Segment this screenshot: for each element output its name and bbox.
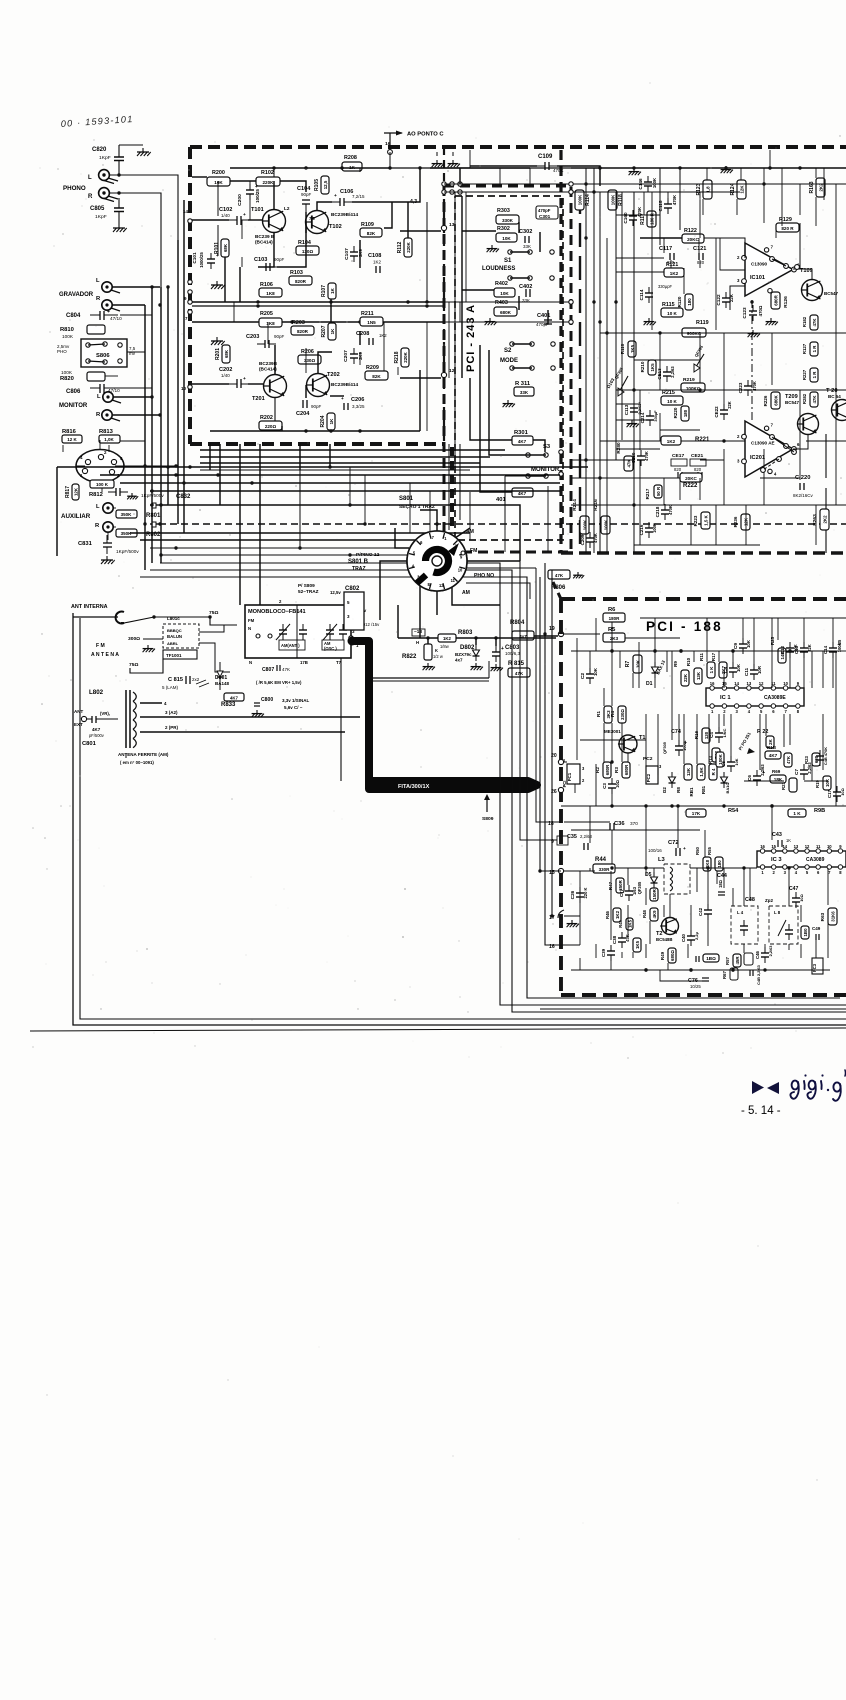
svg-text:D2: D2 xyxy=(662,787,667,793)
svg-text:4K7: 4K7 xyxy=(230,696,238,701)
wire rows between boxes xyxy=(200,469,470,471)
svg-text:L3: L3 xyxy=(658,857,666,863)
svg-text:R801: R801 xyxy=(146,513,161,519)
svg-text:R3: R3 xyxy=(614,767,619,773)
junction circles cluster xyxy=(442,182,446,186)
wire preamp mid rail2 xyxy=(192,321,444,323)
svg-text:AUXILIAR: AUXILIAR xyxy=(61,513,91,520)
svg-text:C40: C40 xyxy=(681,933,686,941)
svg-text:150R: 150R xyxy=(652,888,657,899)
svg-text:(OSC ): (OSC ) xyxy=(324,646,337,651)
svg-text:22K: 22K xyxy=(683,673,688,682)
svg-text:CA3089E: CA3089E xyxy=(764,695,786,701)
svg-text:2,2/63: 2,2/63 xyxy=(670,366,675,378)
svg-text:13: 13 xyxy=(794,844,799,849)
svg-text:1KpF/500v: 1KpF/500v xyxy=(116,549,139,554)
svg-text:C4: C4 xyxy=(709,732,714,738)
capacitor C803 xyxy=(492,651,500,653)
capacitor C4B vertical xyxy=(816,755,824,757)
svg-text:820: 820 xyxy=(697,260,705,265)
svg-text:10K: 10K xyxy=(593,667,598,676)
svg-text:QF305: QF305 xyxy=(637,881,642,894)
svg-text:C13090 AE: C13090 AE xyxy=(751,441,775,446)
thick signal wire xyxy=(352,641,537,789)
svg-text:330K: 330K xyxy=(502,218,514,223)
capacitor C122 vertical xyxy=(722,297,730,299)
svg-text:C206: C206 xyxy=(351,397,364,403)
svg-text:18Ω: 18Ω xyxy=(718,879,723,888)
capacitor C114 vertical xyxy=(645,292,653,294)
svg-text:3,3v 1/SINAL: 3,3v 1/SINAL xyxy=(282,698,310,703)
svg-text:350K: 350K xyxy=(121,512,133,517)
svg-text:R21: R21 xyxy=(781,781,786,789)
capacitor C107 vertical xyxy=(350,251,358,253)
resistor R18 xyxy=(765,751,781,759)
svg-text:C301: C301 xyxy=(539,214,551,219)
svg-text:+: + xyxy=(255,184,258,190)
svg-text:52−TRAZ: 52−TRAZ xyxy=(298,589,319,594)
svg-text:1KpF: 1KpF xyxy=(95,214,107,220)
svg-text:BZX79c: BZX79c xyxy=(455,652,472,657)
svg-text:100K: 100K xyxy=(652,523,657,533)
svg-text:5 (LAM): 5 (LAM) xyxy=(162,685,179,690)
resistor R216 vertical xyxy=(601,516,610,534)
svg-text:R48: R48 xyxy=(642,909,647,917)
svg-text:BBBQC: BBBQC xyxy=(167,628,182,633)
wire pci188 row 868 xyxy=(571,870,595,872)
resistor R118 vertical xyxy=(608,190,617,210)
capacitor CE22 vertical xyxy=(720,409,728,411)
ground tone mid xyxy=(631,420,633,424)
svg-text:R57: R57 xyxy=(725,956,730,964)
svg-text:82K: 82K xyxy=(367,231,376,236)
svg-text:4K7: 4K7 xyxy=(518,439,527,444)
resistor R40 vertical xyxy=(633,938,641,952)
wire preamp top rail xyxy=(230,167,390,169)
svg-text:470pF: 470pF xyxy=(536,322,549,327)
photocoupler PC1 xyxy=(567,764,580,784)
svg-text:470Ω: 470Ω xyxy=(758,305,763,316)
svg-text:PHONO: PHONO xyxy=(63,185,86,192)
svg-text:220Ω: 220Ω xyxy=(265,424,277,429)
wire long h 540 xyxy=(140,539,460,541)
svg-text:+: + xyxy=(341,396,344,401)
resistor R1 vertical xyxy=(604,706,612,723)
svg-text:IC 3: IC 3 xyxy=(771,857,782,863)
svg-text:1K2: 1K2 xyxy=(615,910,620,919)
pci188 pin 19 wire xyxy=(564,633,600,635)
pin 13 xyxy=(441,225,446,230)
svg-text:R204: R204 xyxy=(320,415,326,427)
svg-text:S809: S809 xyxy=(482,816,494,822)
svg-text:R203: R203 xyxy=(292,320,305,326)
svg-text:7,2/15: 7,2/15 xyxy=(352,194,365,199)
wire aux gnd stub xyxy=(107,532,109,540)
svg-text:1K5: 1K5 xyxy=(650,363,655,372)
wire pci188 bottom rows xyxy=(571,969,830,971)
wire preamp rails xyxy=(192,176,207,178)
svg-text:pF/500v: pF/500v xyxy=(89,733,105,738)
antenna hook xyxy=(116,612,124,624)
svg-text:R 311: R 311 xyxy=(515,381,531,387)
svg-text:R54: R54 xyxy=(728,808,739,814)
capacitor C802 box xyxy=(344,592,364,630)
svg-text:75Ω: 75Ω xyxy=(209,610,218,616)
svg-text:TF1001: TF1001 xyxy=(166,653,182,658)
wire long h 475 xyxy=(100,474,560,476)
svg-text:17B: 17B xyxy=(300,660,308,665)
junction dots bus2 xyxy=(166,465,169,468)
svg-text:L: L xyxy=(96,278,100,284)
svg-text:33K: 33K xyxy=(523,244,531,249)
wire mid v drops xyxy=(349,467,351,505)
svg-text:C3: C3 xyxy=(602,783,607,789)
svg-text:C26: C26 xyxy=(570,890,575,899)
svg-text:R50: R50 xyxy=(695,846,700,854)
capacitor C118 vertical xyxy=(664,203,672,205)
resistor R21 vertical xyxy=(789,778,797,792)
wire pci188 divider xyxy=(561,805,846,807)
svg-text:BC547: BC547 xyxy=(785,400,800,405)
svg-text:R115: R115 xyxy=(662,302,675,308)
svg-text:13: 13 xyxy=(449,222,455,228)
junction dots on preamp left edge xyxy=(188,219,192,223)
svg-text:R201: R201 xyxy=(215,348,221,360)
resistor R57 vertical xyxy=(733,954,741,967)
svg-text:MODE: MODE xyxy=(500,358,518,364)
svg-text:C122: C122 xyxy=(716,294,721,306)
svg-text:R282: R282 xyxy=(802,393,807,404)
svg-text:R47: R47 xyxy=(608,881,613,890)
svg-text:H: H xyxy=(416,640,419,645)
pin 12 xyxy=(441,372,446,377)
svg-text:ABRL: ABRL xyxy=(167,641,179,646)
svg-text:R46: R46 xyxy=(605,910,610,918)
svg-text:12K: 12K xyxy=(739,185,744,194)
ferrite coil L802 xyxy=(125,690,127,748)
svg-text:47K: 47K xyxy=(515,671,524,676)
resistor R227 vertical xyxy=(810,368,818,382)
svg-text:R206: R206 xyxy=(301,349,314,355)
svg-text:C13090: C13090 xyxy=(751,261,768,266)
svg-text:47K: 47K xyxy=(282,667,290,672)
wire preamp bottom2 xyxy=(419,370,421,431)
wire phono wires to bus xyxy=(109,175,178,240)
svg-text:100 K: 100 K xyxy=(96,482,109,487)
wire T202 net xyxy=(318,352,332,373)
svg-text:R: R xyxy=(88,194,93,200)
resistor R802 xyxy=(116,529,137,537)
svg-text:R820: R820 xyxy=(60,376,74,382)
capacitor C11 vertical xyxy=(750,669,758,671)
capacitor C214 vertical xyxy=(646,415,654,417)
wire tone block stubs xyxy=(571,439,600,441)
svg-text:90pF: 90pF xyxy=(274,257,285,262)
svg-text:R105: R105 xyxy=(314,179,320,191)
svg-text:12: 12 xyxy=(449,368,455,374)
svg-text:C5: C5 xyxy=(721,761,726,767)
wire pci188 extra v2 xyxy=(603,688,605,706)
svg-text:820 R: 820 R xyxy=(781,226,794,231)
capacitor C801 xyxy=(91,716,93,723)
svg-text:R218: R218 xyxy=(394,351,400,363)
svg-text:R236: R236 xyxy=(733,516,738,527)
svg-text:L: L xyxy=(88,175,92,181)
wire S801 feeds xyxy=(300,470,409,548)
svg-text:11: 11 xyxy=(451,578,456,583)
svg-text:L 8: L 8 xyxy=(774,910,781,915)
svg-text:10K: 10K xyxy=(635,659,640,668)
svg-text:S801 B: S801 B xyxy=(348,559,369,565)
svg-text:10K: 10K xyxy=(736,663,741,672)
svg-text:11: 11 xyxy=(816,844,821,849)
capacitor C204 xyxy=(302,400,304,408)
resistor R3 vertical xyxy=(622,762,630,778)
svg-text:R 815: R 815 xyxy=(508,661,525,667)
bold dash connector to PCI188 xyxy=(553,582,561,599)
svg-text:1K: 1K xyxy=(330,328,335,334)
chain line right xyxy=(751,300,753,420)
svg-text:220K: 220K xyxy=(263,180,275,185)
wire pci188 h rows xyxy=(571,713,604,715)
wire monobloco out pair xyxy=(372,677,489,679)
svg-text:10R: 10R xyxy=(757,665,762,674)
svg-text:BC 54: BC 54 xyxy=(828,394,841,399)
svg-text:PHO NO: PHO NO xyxy=(474,573,494,579)
svg-text:R104: R104 xyxy=(298,240,311,246)
svg-text:17K: 17K xyxy=(692,811,701,816)
svg-text:ME3001: ME3001 xyxy=(604,729,621,734)
capacitor C200 xyxy=(246,189,254,191)
svg-text:2x2: 2x2 xyxy=(192,677,200,682)
svg-text:C49: C49 xyxy=(812,926,821,931)
monobloco internals xyxy=(296,605,298,658)
resistor R69 xyxy=(770,775,786,783)
svg-text:10K: 10K xyxy=(214,180,223,185)
svg-text:R110: R110 xyxy=(620,343,625,354)
svg-text:IC 1: IC 1 xyxy=(720,695,731,701)
svg-text:C160: C160 xyxy=(623,212,628,224)
svg-text:13K: 13K xyxy=(696,671,701,680)
svg-text:R813: R813 xyxy=(99,429,114,435)
resistor R63 vertical xyxy=(828,908,837,925)
svg-text:L802: L802 xyxy=(89,689,104,696)
svg-text:R1: R1 xyxy=(596,711,601,717)
switch S806 xyxy=(81,339,127,367)
svg-text:47K: 47K xyxy=(812,318,817,327)
ground r2 xyxy=(725,166,727,170)
wire pin16 link xyxy=(511,760,513,945)
capacitor C77 vertical xyxy=(625,890,633,892)
svg-text:4x7: 4x7 xyxy=(455,658,463,663)
svg-text:BALUN: BALUN xyxy=(167,634,182,639)
wire preamp mid rail xyxy=(192,301,444,303)
wire T101 collector net xyxy=(273,181,275,210)
svg-text:220 K: 220 K xyxy=(583,888,588,899)
resistor R2 vertical xyxy=(603,762,611,778)
svg-text:R119: R119 xyxy=(696,320,709,326)
svg-text:R200: R200 xyxy=(212,170,225,176)
svg-text:L 4: L 4 xyxy=(737,910,744,915)
op-amp IC101 xyxy=(745,243,793,296)
svg-text:R263: R263 xyxy=(812,514,818,526)
svg-text:PCI - 243 A: PCI - 243 A xyxy=(465,304,477,372)
svg-text:12K: 12K xyxy=(73,487,78,496)
svg-text:(BC414): (BC414) xyxy=(255,240,273,245)
wire gravador bus links xyxy=(120,314,152,316)
wire pin9 link xyxy=(520,561,557,840)
svg-text:R 4: R 4 xyxy=(711,768,716,775)
capacitor C14 vertical xyxy=(829,647,837,649)
wire pci188 denser1 xyxy=(654,618,656,651)
wire left to thick line xyxy=(340,658,342,781)
wire right bottom rows xyxy=(571,504,846,506)
wire gap vertical small xyxy=(469,150,471,168)
svg-text:90pF: 90pF xyxy=(311,404,322,409)
wrap wire 1 xyxy=(160,563,846,1005)
wire top entries xyxy=(430,167,530,169)
wire aux L out xyxy=(159,505,520,561)
svg-text:BC239B/414: BC239B/414 xyxy=(331,212,358,217)
resistor R12 vertical xyxy=(712,748,720,762)
svg-text:R227: R227 xyxy=(802,369,807,380)
jack PHONO R xyxy=(99,188,110,199)
bottom dashed border right section xyxy=(561,551,846,555)
svg-text:12: 12 xyxy=(759,681,764,686)
svg-text:S2: S2 xyxy=(504,348,512,354)
svg-text:16: 16 xyxy=(760,844,765,849)
svg-text:47K: 47K xyxy=(555,573,564,578)
resistor R180 vertical xyxy=(801,926,809,939)
wire gravador xyxy=(112,286,160,288)
svg-text:R127: R127 xyxy=(802,343,807,354)
junction dots bus xyxy=(150,285,153,288)
svg-text:CE17: CE17 xyxy=(672,453,685,459)
jack MONITOR R xyxy=(102,410,112,420)
plug symbol aux L xyxy=(150,504,159,506)
resistor R120 vertical xyxy=(685,294,693,310)
ground S2b xyxy=(507,400,509,404)
resistor R8 vertical xyxy=(684,764,692,780)
resistor R121 1K2 xyxy=(664,268,684,277)
svg-text:C103: C103 xyxy=(254,257,267,263)
svg-text:PCI: PCI xyxy=(562,781,567,788)
svg-text:100/25: 100/25 xyxy=(837,639,842,652)
svg-text:ANTENA FERRITE (AM): ANTENA FERRITE (AM) xyxy=(118,752,169,757)
svg-text:C801: C801 xyxy=(82,741,97,747)
wires antenna xyxy=(73,616,118,618)
svg-text:10K: 10K xyxy=(502,236,511,241)
svg-text:BA1Ω: BA1Ω xyxy=(725,783,730,794)
resistor R204 vertical xyxy=(327,413,335,430)
svg-text:R44: R44 xyxy=(595,857,607,863)
svg-text:R11: R11 xyxy=(699,653,704,662)
transistor T109 xyxy=(802,280,823,301)
wire bottom bus extra xyxy=(540,1008,846,1010)
junction dots tone xyxy=(584,236,587,239)
resistor R123 vertical xyxy=(703,180,712,199)
svg-text:R121: R121 xyxy=(666,262,678,268)
svg-text:R63: R63 xyxy=(820,912,825,921)
svg-text:C11: C11 xyxy=(744,667,749,676)
wire pci188 top rail xyxy=(563,633,565,635)
svg-text:100K: 100K xyxy=(603,519,608,530)
wires L802 xyxy=(140,702,162,704)
resistor R19 vertical xyxy=(823,776,831,790)
svg-text:130Ω: 130Ω xyxy=(302,249,314,254)
capacitor C12 vertical xyxy=(786,647,794,649)
rotary switch S801 face xyxy=(407,531,467,591)
svg-text:LOUDNESS: LOUDNESS xyxy=(482,266,515,272)
svg-text:C207: C207 xyxy=(343,350,349,362)
resistor R112 vertical xyxy=(404,238,412,257)
svg-text:R301: R301 xyxy=(514,430,529,436)
wire IC101 out xyxy=(793,269,812,280)
svg-text:100/6,3: 100/6,3 xyxy=(505,651,521,656)
resistor R229 100KC xyxy=(681,383,705,392)
svg-text:N: N xyxy=(248,626,251,631)
transistor T209 xyxy=(798,414,819,435)
wire pci188 left bus xyxy=(545,563,580,945)
wire right upper grid h xyxy=(616,214,660,216)
svg-text:100Ω: 100Ω xyxy=(682,741,687,751)
svg-text:T201: T201 xyxy=(252,396,265,402)
arrow S809 xyxy=(486,800,488,812)
wire ic201 net xyxy=(793,435,808,449)
svg-text:C7: C7 xyxy=(794,769,799,775)
svg-text:PC2: PC2 xyxy=(646,773,651,782)
svg-text:470K: 470K xyxy=(668,505,673,515)
svg-text:1,9K: 1,9K xyxy=(699,767,704,777)
svg-text:C114: C114 xyxy=(639,289,644,300)
transistor T1 xyxy=(619,735,637,753)
svg-text:F M: F M xyxy=(96,643,105,649)
wire pci188 grid4 xyxy=(589,806,591,843)
svg-text:R208: R208 xyxy=(344,155,357,161)
svg-text:68K: 68K xyxy=(224,349,229,358)
svg-text:330R: 330R xyxy=(599,867,611,872)
svg-text:2,2/63: 2,2/63 xyxy=(768,945,773,957)
svg-text:16: 16 xyxy=(710,681,715,686)
svg-text:4K7: 4K7 xyxy=(92,727,101,732)
svg-text:12 K: 12 K xyxy=(67,437,77,442)
svg-text:10: 10 xyxy=(783,681,788,686)
svg-text:1K2: 1K2 xyxy=(667,439,676,444)
wire preamp t1 bias xyxy=(241,220,243,239)
wire monitor xyxy=(113,396,152,398)
svg-text:D802: D802 xyxy=(460,645,475,651)
svg-text:330µF: 330µF xyxy=(653,410,658,422)
transistor T201 xyxy=(264,375,287,398)
resistor R280 vertical xyxy=(624,456,633,471)
svg-text:2K2: 2K2 xyxy=(822,515,827,524)
svg-text:R120: R120 xyxy=(677,296,682,307)
wire pin13 xyxy=(400,230,441,232)
svg-text:PCI - 188: PCI - 188 xyxy=(646,619,723,634)
svg-text:820R: 820R xyxy=(295,279,307,284)
ground S2 xyxy=(489,318,491,322)
capacitor small bottom xyxy=(695,956,697,962)
svg-text:C44: C44 xyxy=(717,873,727,879)
wire pci188 bottom band xyxy=(595,944,597,958)
svg-text:C72: C72 xyxy=(668,840,679,846)
capacitor C9 vertical xyxy=(739,643,747,645)
svg-text:10Ω: 10Ω xyxy=(615,779,620,788)
ground r1 xyxy=(633,168,635,172)
svg-text:−18: −18 xyxy=(414,629,422,634)
svg-text:R124: R124 xyxy=(730,183,736,195)
svg-text:1N5: 1N5 xyxy=(367,320,376,325)
